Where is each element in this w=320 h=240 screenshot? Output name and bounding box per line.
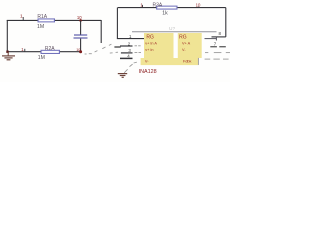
yellow highlight bottom strip (141, 58, 199, 65)
pin 8 internal elbow (215, 37, 217, 41)
dashes right of pin 2 (135, 45, 141, 47)
pin 2 stub (120, 45, 133, 47)
wire: pin 8 connection (212, 36, 226, 38)
svg-text:v+ In A: v+ In A (145, 41, 157, 45)
wire: pin 1 connection (117, 38, 145, 40)
rubber-band dashes to pin 4 (from ground) (124, 62, 137, 73)
pin 3 stub (121, 52, 133, 54)
wire: right vertical stub of left circuit (100, 20, 102, 43)
resistor R2A body (41, 50, 60, 53)
yellow highlight right column (178, 33, 202, 58)
junction dot at capacitor bottom (79, 50, 82, 53)
svg-text:Fdbk: Fdbk (183, 59, 192, 63)
pin 1 tick on top rail (22, 17, 24, 20)
dashes right of pin 3 (135, 52, 142, 54)
wire: left circuit top rail (7, 19, 101, 21)
svg-text:1: 1 (20, 14, 23, 20)
capacitor C top lead (80, 20, 82, 34)
IC U? body top bar (132, 31, 217, 33)
svg-text:v+ In: v+ In (145, 48, 153, 52)
pin 1 tick on right top rail (142, 5, 144, 8)
junction dot at capacitor top (79, 19, 82, 22)
svg-text:V+ A: V+ A (182, 41, 191, 45)
pin 7 stub dashes (210, 46, 226, 48)
wire: right circuit right vertical (225, 8, 227, 37)
svg-text:R1A: R1A (37, 14, 47, 20)
svg-text:1M: 1M (38, 55, 45, 61)
ground symbol 2 (earth, 3 bars) (118, 74, 127, 78)
pin 5 rubber-band dashes (205, 58, 229, 60)
background (0, 0, 230, 82)
svg-text:RG: RG (146, 35, 154, 41)
svg-text:10: 10 (77, 15, 82, 20)
wire: right circuit left vertical (116, 8, 118, 39)
svg-text:RG: RG (179, 35, 187, 41)
svg-text:1M: 1M (37, 24, 44, 30)
ground stem (7, 52, 9, 56)
pin 4 stub (120, 57, 133, 59)
rubber-band dashed wire to pin 3 (horizontal) (85, 52, 118, 54)
capacitor C bottom lead (80, 39, 82, 52)
resistor R1A body (38, 19, 55, 22)
resistor R3A body (157, 6, 177, 9)
wire: left circuit left vertical (6, 20, 8, 52)
yellow highlight left column (144, 33, 174, 58)
ground symbol (earth, 3 bars) (2, 56, 15, 60)
pin 8 internal line (205, 38, 217, 40)
pin tick (R3A right) (198, 7, 200, 8)
rubber-band dashed wire to pin 2 (diagonal) (95, 44, 112, 52)
svg-text:1k: 1k (162, 11, 168, 17)
pin 6 rubber-band dashes (205, 52, 230, 54)
wire: right circuit top rail (118, 7, 226, 9)
svg-text:R3A: R3A (153, 2, 163, 8)
capacitor C bottom plate (74, 37, 88, 39)
svg-text:INA128: INA128 (139, 69, 157, 75)
rubber-band thick dash at pin 2 (114, 46, 120, 48)
pin 1 tick on bottom rail (24, 49, 26, 52)
capacitor C top plate (74, 34, 87, 36)
svg-text:R2A: R2A (45, 46, 55, 52)
bottom strip right edge tick (197, 58, 199, 65)
svg-text:U?: U? (169, 26, 175, 32)
junction dot at ground branch (6, 51, 8, 53)
wire: left circuit bottom rail (7, 51, 82, 53)
